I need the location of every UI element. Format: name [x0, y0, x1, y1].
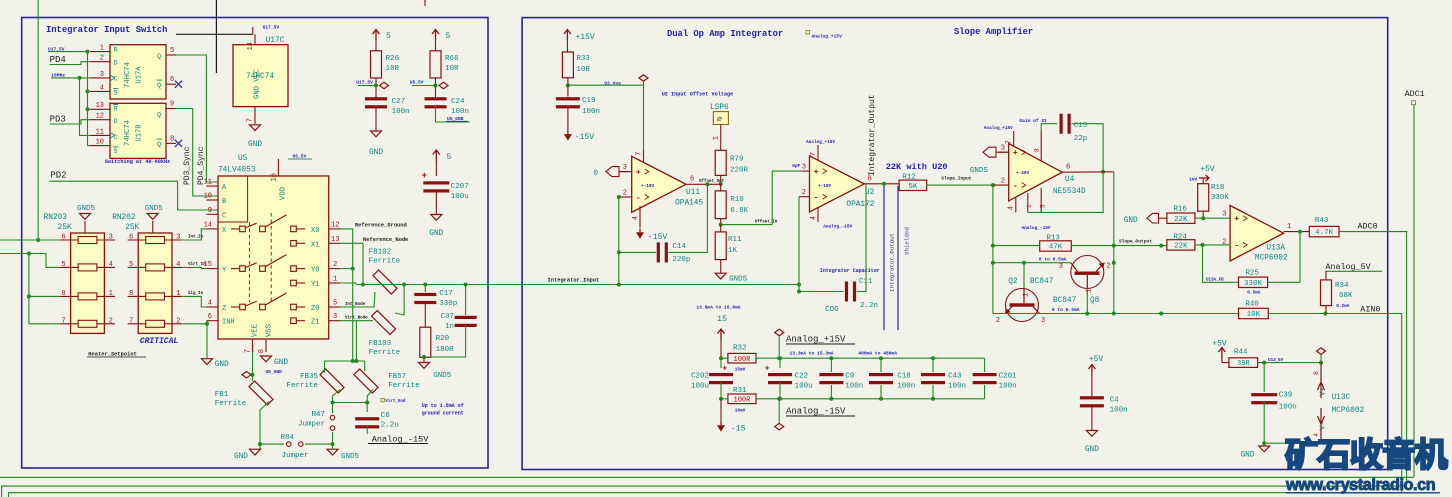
svg-text:U17B: U17B — [136, 124, 144, 142]
resistor element RN202.4 — [146, 320, 165, 327]
svg-text:U4: U4 — [1065, 176, 1075, 184]
svg-text:100R: 100R — [734, 396, 752, 404]
svg-text:C4: C4 — [1110, 397, 1120, 405]
svg-text:-15V: -15V — [575, 133, 594, 142]
svg-text:Offset_In: Offset_In — [755, 220, 778, 225]
svg-text:100n: 100n — [582, 108, 600, 116]
svg-text:22K: 22K — [1174, 216, 1188, 224]
svg-text:7: 7 — [245, 349, 253, 353]
wire FB57 bottom to C6 — [367, 390, 373, 413]
svg-text:+15V: +15V — [576, 33, 595, 42]
svg-text:Switching at 40-80kHz: Switching at 40-80kHz — [105, 159, 170, 165]
svg-text:C18: C18 — [897, 373, 911, 381]
svg-text:100n: 100n — [1279, 404, 1297, 412]
pin 3 U17A — [90, 77, 110, 79]
svg-text:330K: 330K — [1211, 194, 1230, 202]
svg-text:FB35: FB35 — [300, 373, 319, 381]
capacitor C17 — [424, 285, 426, 293]
transistor Q8 BC847 — [1071, 256, 1104, 289]
op-amp U11 OPA145 — [632, 156, 686, 212]
svg-text:Reference_Ground: Reference_Ground — [355, 223, 407, 229]
svg-text:+: + — [1013, 148, 1018, 158]
resistor R11 — [715, 232, 726, 260]
svg-text:5: 5 — [129, 261, 133, 269]
svg-text:Shielded: Shielded — [904, 227, 911, 255]
svg-text:+-18V: +-18V — [641, 184, 655, 189]
pin 7 U17C — [254, 107, 256, 124]
capacitor C24 — [425, 97, 447, 100]
svg-text:400mA to 480mA: 400mA to 480mA — [858, 351, 897, 357]
svg-text:B: B — [222, 198, 226, 206]
svg-text:-: - — [1013, 181, 1018, 191]
svg-text:MCP6002: MCP6002 — [1332, 407, 1365, 415]
svg-text:10R: 10R — [445, 65, 459, 73]
pin 13 U5 — [329, 242, 340, 244]
svg-text:1: 1 — [1086, 289, 1094, 293]
svg-text:VEE: VEE — [251, 324, 259, 337]
svg-text:100n: 100n — [999, 383, 1017, 391]
svg-text:2: 2 — [176, 317, 180, 325]
wire ADC0 — [1339, 232, 1407, 487]
svg-text:2: 2 — [100, 55, 104, 63]
pin 12 U17B — [90, 119, 110, 121]
svg-text:Gain of 21: Gain of 21 — [1019, 118, 1047, 124]
svg-text:GND: GND — [248, 141, 262, 149]
svg-text:100u: 100u — [451, 193, 469, 201]
wire tie FB bottoms — [333, 402, 368, 404]
svg-text:15: 15 — [717, 314, 727, 324]
capacitor C43 — [931, 356, 935, 360]
svg-text:Z0: Z0 — [311, 305, 319, 313]
no-connect U17A pin 6 — [175, 81, 182, 88]
svg-text:U2 Input Offset Voltage: U2 Input Offset Voltage — [662, 92, 734, 98]
rail wires — [779, 357, 984, 359]
hier diamond Analog_+15V — [775, 329, 784, 335]
svg-text:1: 1 — [100, 45, 104, 53]
pin 10 U5 — [206, 199, 218, 201]
svg-text:Virt_Node: Virt_Node — [345, 316, 368, 321]
flip-flop U17A — [110, 45, 166, 99]
svg-text:GNDS: GNDS — [970, 167, 989, 175]
svg-text:22p: 22p — [1074, 135, 1088, 143]
svg-text:5: 5 — [447, 153, 452, 162]
wire FB35 FB57 tops — [324, 361, 326, 373]
pin 11 U17B — [90, 134, 110, 136]
pin 2 U4 — [993, 184, 1009, 186]
svg-text:Q: Q — [157, 53, 161, 61]
svg-text:47K: 47K — [1049, 244, 1063, 252]
svg-text:Virt_Gnd: Virt_Gnd — [385, 399, 406, 404]
svg-text:16: 16 — [271, 173, 279, 181]
svg-text:220R: 220R — [730, 167, 749, 175]
svg-text:+: + — [422, 171, 427, 181]
capacitor C9 — [829, 356, 833, 360]
wire node R66 — [412, 85, 436, 87]
svg-text:PD2: PD2 — [50, 171, 66, 181]
svg-text:+-20V: +-20V — [1016, 171, 1030, 176]
power flag 5 at C207 — [435, 150, 437, 161]
svg-text:6: 6 — [61, 234, 65, 242]
resistor element RN203.2 — [78, 264, 97, 271]
resistor element RN202.2 — [146, 264, 165, 271]
svg-text:100u: 100u — [691, 383, 709, 391]
svg-text:R34: R34 — [1335, 282, 1349, 290]
resistor network RN202 25K — [138, 233, 172, 333]
pin 12 U5 — [329, 228, 340, 230]
svg-text:FB103: FB103 — [369, 340, 392, 348]
wire left edge row 5 — [0, 254, 60, 268]
svg-text:0: 0 — [593, 169, 598, 178]
pin 2 U11 — [619, 196, 632, 198]
svg-text:5: 5 — [61, 261, 65, 269]
wire R33 node to U11 V+ — [568, 85, 644, 150]
svg-text:+-18V: +-18V — [818, 184, 832, 189]
svg-text:6: 6 — [170, 76, 174, 84]
svg-text:⌀: ⌀ — [717, 116, 722, 125]
svg-text:C: C — [114, 76, 118, 84]
svg-text:100n: 100n — [948, 383, 966, 391]
svg-text:+: + — [765, 365, 770, 374]
svg-text:Jumper: Jumper — [281, 452, 308, 460]
svg-text:22K with U20: 22K with U20 — [886, 162, 948, 172]
power flag -15V at U11 — [639, 229, 641, 235]
wire R12 to U4 — [927, 184, 999, 186]
svg-text:COG: COG — [825, 306, 839, 314]
svg-text:100R: 100R — [734, 356, 752, 364]
svg-text:X0: X0 — [311, 227, 319, 235]
sheet box Integrator Input Switch — [22, 18, 488, 469]
svg-text:PD3: PD3 — [50, 115, 66, 125]
svg-text:U2_Vos: U2_Vos — [604, 81, 621, 87]
resistor R66 — [430, 51, 441, 78]
svg-text:R25: R25 — [1245, 270, 1259, 278]
svg-text:+: + — [722, 365, 727, 374]
shield lines — [883, 184, 885, 330]
svg-text:R11: R11 — [728, 236, 742, 244]
svg-text:6: 6 — [208, 313, 212, 321]
svg-text:C27: C27 — [392, 98, 406, 106]
capacitor C6 — [355, 417, 379, 420]
svg-text:74HC74: 74HC74 — [124, 62, 132, 88]
svg-text:0 to 0.5mA: 0 to 0.5mA — [1039, 257, 1067, 263]
node Offset_Out — [719, 182, 723, 186]
svg-text:7: 7 — [247, 118, 255, 122]
svg-text:4.7K: 4.7K — [1315, 229, 1334, 237]
wire X0 Reference_Ground — [340, 229, 353, 361]
svg-text:12: 12 — [96, 113, 104, 121]
wire PD4 to pin 2 — [50, 62, 90, 65]
svg-text:Analog_+15V: Analog_+15V — [806, 140, 835, 145]
wire C6 to Analog_-15V — [366, 426, 368, 434]
svg-text:Analog_5V: Analog_5V — [1325, 262, 1370, 272]
resistor R33 — [562, 52, 573, 78]
power flag +15V — [566, 30, 568, 41]
svg-text:+: + — [814, 167, 819, 177]
svg-text:3: 3 — [623, 164, 627, 172]
ground GND5 at rail — [327, 449, 338, 455]
svg-text:+5V: +5V — [1212, 340, 1227, 349]
svg-text:C6: C6 — [381, 412, 391, 420]
svg-text:R44: R44 — [1234, 349, 1248, 357]
U13C power symbol — [1320, 363, 1322, 380]
svg-text:Heater_Setpoint: Heater_Setpoint — [88, 352, 137, 358]
ground GNDS at R11 — [715, 273, 726, 279]
svg-text:AIN0: AIN0 — [1360, 305, 1380, 315]
svg-text:9: 9 — [208, 207, 212, 215]
compensation pins U4 — [1027, 193, 1029, 212]
svg-text:10mV: 10mV — [735, 409, 746, 414]
svg-text:2: 2 — [623, 189, 627, 197]
svg-text:R24: R24 — [1173, 234, 1187, 242]
svg-text:2: 2 — [1001, 178, 1005, 186]
svg-text:R43: R43 — [1315, 217, 1329, 225]
wire Slope_Output to R24 — [1161, 245, 1167, 247]
svg-text:Ferrite: Ferrite — [369, 349, 401, 357]
svg-text:Analog_+15V: Analog_+15V — [786, 335, 846, 345]
svg-text:BC847: BC847 — [1030, 278, 1054, 286]
svg-text:U17C: U17C — [266, 37, 285, 45]
resistor R26 — [371, 51, 382, 78]
svg-text:1: 1 — [1026, 204, 1033, 208]
svg-text:100n: 100n — [392, 108, 410, 116]
wire from top edge — [215, 0, 217, 73]
pin 4 U2 — [817, 208, 819, 223]
svg-text:3: 3 — [802, 164, 806, 172]
svg-text:1: 1 — [713, 136, 721, 140]
svg-text:1: 1 — [333, 276, 337, 284]
capacitor C37 — [465, 285, 467, 316]
wire Y1 to integrator input node — [340, 283, 356, 285]
transistor Q2 BC847 — [1006, 289, 1039, 322]
wire left edge rows 8 and 7 — [29, 254, 60, 324]
ground rail wire — [260, 443, 284, 445]
svg-text:3: 3 — [1222, 211, 1226, 219]
svg-text:Ferrite: Ferrite — [215, 400, 247, 408]
wire U13C ground — [1264, 442, 1321, 444]
svg-text:C: C — [222, 212, 226, 220]
capacitor C27 — [365, 97, 387, 100]
capacitor C19 — [567, 85, 569, 96]
svg-text:+: + — [1234, 214, 1239, 224]
svg-text:Sig_In: Sig_In — [188, 291, 204, 296]
wire RN202 to U5 Y — [183, 267, 206, 268]
no-connect U17B pin 8 — [175, 140, 182, 147]
svg-text:4: 4 — [1008, 206, 1016, 210]
svg-text:C202: C202 — [691, 373, 709, 381]
pin 10 U17B — [90, 145, 110, 147]
svg-text:2: 2 — [802, 189, 806, 197]
svg-text:6: 6 — [690, 176, 694, 184]
pin 6 U17A — [166, 83, 176, 85]
pin 1 U13A — [1284, 231, 1310, 233]
wire vertical from top — [37, 0, 39, 240]
ground GND at INH — [202, 359, 213, 365]
wire FB35 bottom to jumper R47 — [333, 390, 341, 414]
svg-text:R10: R10 — [730, 196, 744, 204]
resistor element RN203.4 — [78, 320, 97, 327]
svg-text:Q: Q — [157, 141, 161, 149]
svg-text:2: 2 — [109, 317, 113, 325]
wire FB103 to input node — [402, 283, 406, 287]
svg-text:39R: 39R — [1237, 360, 1250, 368]
svg-text:100n: 100n — [1110, 407, 1128, 415]
svg-text:8: 8 — [61, 290, 65, 298]
svg-text:CRITICAL: CRITICAL — [140, 337, 179, 346]
svg-text:Integrator Input Switch: Integrator Input Switch — [46, 25, 167, 35]
wire R25 to output — [1268, 232, 1300, 283]
svg-text:68K: 68K — [1339, 292, 1353, 300]
svg-text:GND5: GND5 — [341, 453, 360, 461]
wire left edge to RN203 pin 6 — [38, 239, 60, 241]
svg-text:13.3mA to 15.3mA: 13.3mA to 15.3mA — [790, 351, 834, 357]
resistor element RN202.3 — [146, 293, 165, 300]
pin 2 U17A — [90, 61, 110, 63]
ground U17C — [250, 125, 261, 131]
svg-text:R33: R33 — [576, 55, 590, 63]
svg-text:2: 2 — [996, 317, 1000, 325]
pin 9 U5 — [206, 213, 218, 215]
svg-text:Q: Q — [157, 112, 161, 120]
pin 4 U17A — [90, 90, 110, 92]
svg-text:25K: 25K — [125, 224, 139, 232]
input port 0 at U11 — [606, 167, 619, 177]
svg-text:13: 13 — [96, 102, 104, 110]
hier pin diamond R26 — [380, 82, 389, 88]
wire feedback to R25 — [1203, 245, 1239, 282]
power flag -15V at C19 — [567, 131, 569, 137]
svg-text:7: 7 — [810, 152, 818, 156]
wire R24 to pin 2 — [1195, 244, 1230, 246]
svg-text:GND: GND — [274, 359, 288, 367]
jumper R84 — [286, 442, 291, 447]
op-amp U2 OPA172 — [810, 156, 865, 212]
svg-text:INH: INH — [222, 319, 235, 327]
svg-text:C39: C39 — [1279, 392, 1293, 400]
svg-text:U13A_FB: U13A_FB — [1206, 278, 1224, 282]
capacitor C202 polarized — [720, 358, 722, 368]
svg-text:74HC74: 74HC74 — [124, 120, 132, 146]
svg-text:4: 4 — [100, 84, 104, 92]
wire Q2 base — [1023, 263, 1025, 288]
pin 11 U5 — [206, 185, 218, 187]
pin 3 U2 — [802, 170, 810, 172]
svg-text:R66: R66 — [445, 55, 459, 63]
svg-text:GND: GND — [369, 149, 383, 157]
svg-text:ADC1: ADC1 — [1405, 89, 1425, 99]
power flag 5 at R66 — [435, 30, 437, 41]
wire U2 pin 2 down — [798, 197, 800, 285]
svg-text:ground current: ground current — [422, 411, 464, 417]
svg-text:2: 2 — [1107, 263, 1111, 271]
pin 3 U4 — [999, 151, 1009, 153]
svg-text:100u: 100u — [795, 383, 813, 391]
svg-text:R: R — [114, 106, 118, 114]
pin 4 U5 — [206, 306, 218, 308]
svg-text:74LV4053: 74LV4053 — [218, 167, 256, 175]
svg-text:4: 4 — [208, 300, 212, 308]
svg-text:X1: X1 — [311, 241, 319, 249]
svg-text:3: 3 — [333, 313, 337, 321]
svg-text:15mV: 15mV — [735, 368, 746, 373]
hier diamond U13C — [1317, 348, 1326, 354]
capacitor C39 — [1263, 363, 1265, 392]
svg-text:5: 5 — [386, 32, 391, 41]
svg-text:Y1: Y1 — [311, 281, 319, 289]
svg-text:U5_5V: U5_5V — [410, 80, 424, 86]
svg-text:Jumper: Jumper — [298, 421, 325, 429]
wire U17_5V tie R/S — [48, 51, 88, 53]
svg-text:D: D — [114, 60, 118, 68]
wire R44 to U13C V+ — [1258, 362, 1321, 364]
svg-text:3: 3 — [1001, 145, 1005, 153]
svg-text:-: - — [814, 193, 819, 203]
svg-text:Int_Node: Int_Node — [345, 302, 366, 307]
svg-text:6.8K: 6.8K — [730, 207, 749, 215]
svg-text:3: 3 — [1041, 317, 1045, 325]
ground C27 — [371, 131, 382, 137]
wire U5_GND at C24 — [436, 106, 471, 122]
svg-text:0.5mA: 0.5mA — [1247, 291, 1261, 296]
svg-text:12: 12 — [331, 221, 339, 229]
analog switch U5 74LV4053 — [218, 176, 329, 339]
svg-text:C14: C14 — [672, 243, 686, 251]
svg-text:FB1: FB1 — [215, 391, 229, 399]
svg-text:220p: 220p — [672, 256, 690, 264]
svg-text:Dual Op Amp Integrator: Dual Op Amp Integrator — [667, 29, 783, 39]
svg-text:Slope Amplifier: Slope Amplifier — [954, 27, 1033, 37]
svg-text:4: 4 — [176, 261, 180, 269]
svg-text:Integrator_Input: Integrator_Input — [548, 278, 600, 284]
svg-text:R: R — [114, 47, 118, 55]
ground GND5 RN202 — [152, 227, 154, 233]
wire Integrator_Input — [356, 285, 844, 292]
wire INH to ground — [205, 320, 208, 322]
power flag 5 at R26 — [375, 30, 377, 41]
wire X1 Reference_Node — [340, 243, 363, 284]
svg-text:11: 11 — [96, 128, 104, 136]
svg-text:GND5: GND5 — [433, 372, 452, 380]
inner select box U5 — [218, 176, 248, 222]
svg-text:330K: 330K — [1244, 280, 1263, 288]
svg-text:Integrator_Output: Integrator_Output — [868, 94, 877, 176]
svg-text:Int_In: Int_In — [188, 236, 204, 240]
capacitor C15 — [1028, 172, 1103, 213]
svg-text:R32: R32 — [733, 345, 747, 353]
svg-text:Reference_Node: Reference_Node — [363, 237, 408, 243]
pin 9 U17B — [166, 108, 176, 110]
wire Z0 to FB102 — [340, 306, 374, 308]
label Analog_+15V top — [806, 31, 810, 35]
svg-text:1n: 1n — [445, 323, 454, 331]
wire node R26 — [358, 85, 376, 87]
svg-text:13.8mA to 16.8mA: 13.8mA to 16.8mA — [696, 305, 740, 311]
svg-text:LSP6: LSP6 — [710, 104, 729, 112]
resistor R20 — [420, 327, 431, 357]
svg-text:U17A: U17A — [136, 66, 144, 84]
pin 6 U4 — [1062, 171, 1114, 173]
svg-text:14: 14 — [204, 221, 212, 229]
svg-text:C22: C22 — [795, 373, 809, 381]
pin 2 U5 — [329, 268, 340, 270]
wire PD2 to pin 9 of U5 — [50, 181, 219, 210]
svg-text:Q2: Q2 — [1008, 278, 1018, 286]
svg-text:+: + — [636, 167, 641, 177]
svg-text:ADC0: ADC0 — [1358, 222, 1378, 232]
svg-text:5: 5 — [333, 300, 337, 308]
wire U5 pin 7 to FB1 — [252, 352, 254, 381]
svg-text:10: 10 — [96, 139, 104, 147]
svg-text:2: 2 — [333, 261, 337, 269]
